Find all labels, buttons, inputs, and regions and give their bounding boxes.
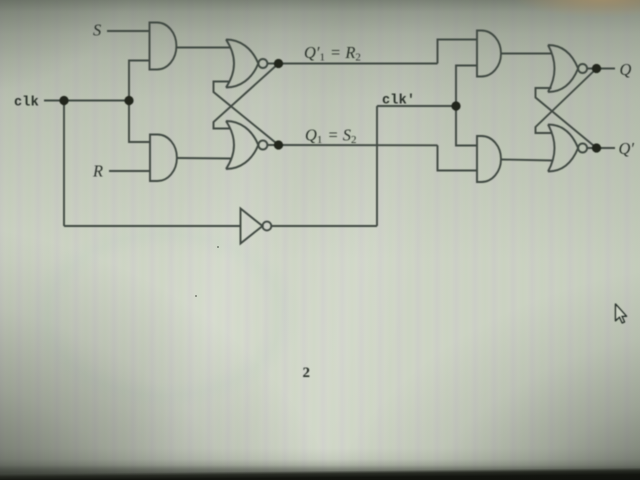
wire node B up to AND1 lower input — [129, 61, 150, 101]
wire R2 jog up into AND3 — [438, 40, 478, 64]
node B — [124, 96, 133, 105]
wire S2 jog down into AND4 — [438, 145, 478, 170]
bezel — [0, 467, 640, 480]
wire rise to clk' — [376, 106, 378, 226]
wire N1 out to node D and R2 run — [267, 63, 438, 65]
wire G3 output to NOR3 — [502, 53, 553, 55]
wire Q output — [587, 68, 615, 70]
nor-gate N2 (first latch bottom) — [226, 121, 258, 169]
wire node C down to AND4 upper input — [456, 106, 478, 146]
wire S lead — [107, 30, 150, 32]
wire bottom run to inverter — [64, 225, 240, 227]
svg-text:clk: clk — [14, 96, 39, 111]
node F — [592, 64, 601, 73]
wire node B down to AND2 upper input — [129, 101, 151, 143]
wire inverter output — [271, 225, 377, 227]
mouse cursor — [616, 304, 627, 323]
wire R lead — [109, 170, 150, 172]
svg-text:R: R — [92, 162, 103, 181]
wire Q' output — [587, 147, 615, 149]
inverter U1 — [241, 209, 263, 244]
svg-text:clk': clk' — [382, 94, 415, 109]
svg-text:2: 2 — [303, 365, 311, 381]
wire G4 output to NOR4 — [502, 160, 554, 161]
wire cross feedback G to N3 lower input — [536, 88, 597, 148]
node A — [59, 96, 68, 105]
dust specks — [217, 246, 219, 248]
nor-gate N3 (second latch top) — [548, 45, 578, 92]
wire cross feedback D to N2 upper input — [214, 64, 279, 129]
nor-gate N1 (first latch top) — [226, 40, 258, 88]
wire N2 out to node E and S2 run — [267, 144, 438, 146]
nor-gate N2 bubble — [258, 141, 267, 150]
nor-gate N4 (second latch bottom) — [548, 125, 578, 172]
svg-text:Q1 = S2: Q1 = S2 — [305, 126, 357, 147]
wire clk' horizontal — [377, 105, 456, 107]
node D — [274, 59, 283, 68]
node E — [274, 140, 283, 149]
wire cross feedback F to N4 upper input — [536, 69, 597, 134]
svg-text:Q′1 = R2: Q′1 = R2 — [304, 43, 361, 64]
nor-gate N3 bubble — [578, 64, 587, 73]
and-gate G2 (R gate) — [150, 135, 177, 182]
nor-gate N4 bubble — [578, 144, 587, 153]
svg-text:Q′: Q′ — [619, 139, 635, 158]
wire G1 output to NOR1 — [177, 47, 231, 49]
nor-gate N1 bubble — [258, 59, 267, 68]
node G — [592, 143, 601, 152]
svg-text:Q: Q — [620, 60, 632, 79]
node C — [451, 101, 460, 110]
and-gate G3 (second stage top) — [477, 31, 501, 77]
wire clk down from node A — [63, 101, 65, 227]
and-gate G1 (S gate) — [150, 23, 177, 70]
inverter U1 bubble — [263, 222, 272, 231]
wire cross feedback E to N1 lower input — [214, 82, 279, 146]
wire G2 output to NOR2 — [177, 157, 231, 160]
wire node C up to AND3 lower input — [456, 66, 478, 107]
and-gate G4 (second stage bottom) — [477, 136, 501, 182]
wire clk lead — [44, 100, 129, 102]
svg-text:S: S — [93, 21, 101, 40]
